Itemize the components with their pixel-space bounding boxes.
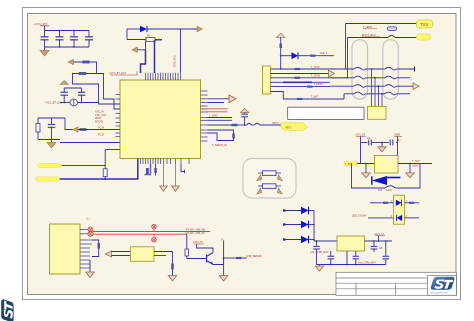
decoupling capacitor C8 on right — [241, 109, 249, 126]
power flag +5V1_U5 — [355, 134, 366, 137]
wire collector up — [197, 245, 214, 253]
legend resistor Ra — [263, 171, 277, 176]
svg-text:PC15: PC15 — [98, 133, 105, 136]
J1 wire pin 4 (thick segment) — [271, 81, 284, 83]
wire right pin to big out arrow — [208, 98, 230, 100]
wire through converter line (left) — [357, 163, 375, 165]
diode D1 — [140, 26, 147, 33]
wire bottom pin to down arrow 1 — [163, 159, 165, 187]
wire stair from bead 2 down to MCU left — [73, 74, 121, 105]
ST logo (bottom-left, rotated) — [1, 299, 13, 321]
ground (crystal) — [47, 140, 56, 149]
svg-text:BOOT_MCU: BOOT_MCU — [362, 34, 376, 37]
capacitor C5 — [61, 88, 69, 103]
svg-text:T_/5V0: T_/5V0 — [412, 160, 420, 163]
svg-text:Vout_STM_MAX: Vout_STM_MAX — [358, 262, 376, 265]
LED A (points right) — [396, 200, 402, 206]
J1 wire pin 1 — [271, 68, 346, 70]
inductor arc on loop — [385, 186, 396, 188]
wire bottom pin with bead — [155, 164, 157, 176]
wire hop near VBTO — [255, 123, 260, 125]
wire through converter line (right) — [398, 163, 432, 165]
wire bottom pin to down arrow 2 — [175, 159, 177, 187]
power flag V5M0 — [394, 134, 402, 137]
ferrite bead FB4 on bottom wire — [146, 168, 149, 174]
legend resistor Rb — [263, 184, 277, 189]
capacitor C6 — [78, 88, 86, 103]
wire with bead going right (VBTO line) — [208, 124, 232, 126]
port arrow left (crystal filter) — [106, 251, 112, 257]
MCU bottom pin stubs — [141, 159, 190, 165]
transformer T1 body left (stadium) — [352, 40, 368, 99]
ferrite bead FB7 (vertical) — [98, 243, 101, 249]
wire rails down to converter — [360, 143, 362, 164]
svg-text:PC14: PC14 — [98, 126, 105, 129]
ground left of converter — [362, 163, 370, 178]
svg-text:life.augmented: life.augmented — [431, 291, 449, 295]
net label BOOT_MCU — [362, 34, 380, 37]
port arrow BT enable — [68, 59, 74, 64]
empty white spare box — [288, 107, 364, 119]
MCU top pin stubs — [146, 73, 181, 80]
ground rail (LDO) — [317, 264, 386, 266]
port arrow right (JTDO) — [329, 70, 335, 77]
power flag +5V1_ST (output) — [374, 233, 385, 242]
inductor L1 (ellipse body) — [70, 99, 78, 106]
MCU right pin stubs — [201, 91, 208, 141]
capacitor C7 (crystal) — [48, 118, 56, 140]
wire top rail of capacitor bank — [45, 30, 90, 32]
junction dot — [104, 178, 106, 180]
svg-text:USB_RENUM: USB_RENUM — [247, 255, 262, 258]
net flag tab 2 (yellow) — [417, 34, 431, 40]
J1 wire pin 2 with arrow — [271, 73, 329, 75]
port arrow down 2 — [172, 186, 179, 191]
port arrow out (right, large) — [229, 95, 236, 103]
svg-text:UMAX: UMAX — [412, 165, 419, 168]
LED B (points left) — [397, 215, 403, 221]
power flag +VCC_BT_LDO (above MCU) — [109, 71, 137, 75]
wire from port arrow down to MCU feed — [138, 41, 146, 50]
thick wire MCU bottom to left yellow flag 2 — [59, 159, 138, 180]
net flag yellow bar 1 — [38, 163, 62, 167]
MCU U1 (main microcontroller) — [120, 80, 201, 159]
title block table — [336, 272, 457, 295]
wire renum out with bead — [224, 257, 236, 259]
wire BOOT to tab 2 with hop — [348, 37, 389, 39]
svg-text:T_JTMS: T_JTMS — [311, 74, 320, 77]
resistor R4 on TVS line — [388, 27, 397, 31]
capacitor C13 — [353, 251, 360, 265]
test point TP1 (crossed circle) — [88, 227, 93, 232]
wire flag1 to resistor node — [62, 164, 106, 166]
svg-text:T_NRST: T_NRST — [314, 83, 324, 86]
test point TP2 (crossed circle) — [88, 231, 93, 236]
wire LED A right with bead — [405, 202, 410, 204]
port arrow out (top) — [197, 26, 203, 32]
wire vertical joining diode and resistor branch — [126, 29, 128, 40]
USB connector CN1 — [50, 224, 81, 274]
wire vertical BOOT feed — [347, 38, 349, 78]
resistor R5 (base) — [185, 249, 189, 256]
wire CN1 lower pins bus to ground — [89, 260, 91, 272]
wire 5V cap rail — [360, 137, 362, 143]
wire T_NRST to TVS tab — [346, 23, 417, 25]
J1 wire pin 6 to T_BAT run — [271, 92, 345, 100]
legend arrows (Ra) — [257, 175, 262, 182]
filter block U3 (yellow) — [131, 247, 155, 261]
MCU left pin stubs — [116, 95, 121, 150]
wire LED A left with bead — [370, 202, 383, 204]
diode D5 (power OR 1) — [283, 207, 314, 215]
capacitor C9 (series plates) — [369, 140, 372, 146]
MCU left pin net labels (red) — [95, 111, 107, 137]
wire LDO cap rail — [64, 87, 81, 89]
power flag +VCC_BT — [34, 22, 50, 26]
row 1 end tick — [414, 67, 416, 72]
power arrow (antenna supply) — [277, 33, 286, 43]
ground below capacitor bank — [40, 47, 49, 56]
wire vertical feed 2 to MCU top — [154, 40, 156, 73]
wire diode to ANL_1 with bead — [298, 55, 310, 57]
transformer pin block (yellow) — [368, 107, 387, 120]
svg-text:VBTO: VBTO — [272, 122, 279, 125]
svg-text:VBTO: VBTO — [285, 127, 292, 130]
wire emitter to node — [213, 258, 224, 265]
wire vertical T_NRST feed — [345, 24, 347, 70]
ferrite bead FB2 — [79, 72, 86, 75]
svg-text:T_JTCK: T_JTCK — [311, 66, 320, 69]
wire crystal bottom rail to ground — [38, 139, 60, 141]
wire MCU bottom loop (violet thick) — [145, 164, 151, 175]
svg-text:DNI 10uH: DNI 10uH — [378, 189, 392, 192]
ground below CN1 — [86, 272, 94, 278]
wire right pin 2 — [208, 102, 225, 104]
ST logo (title block) — [431, 277, 455, 290]
wire loop lower right of MCU — [208, 130, 234, 141]
transformer row 4 wire with coil bumps — [344, 92, 410, 95]
wire base to transistor — [187, 258, 207, 260]
svg-text:1uF: 1uF — [379, 247, 384, 250]
test point TP3 — [152, 224, 157, 231]
port arrow in (left) — [132, 47, 138, 53]
wire LDO output — [365, 240, 393, 242]
capacitor C12 — [328, 251, 335, 265]
capacitor C3 — [70, 37, 78, 40]
power flag +5V1_ST (transistor circuit) — [193, 241, 204, 244]
wire stair 2 to MCU left — [97, 74, 121, 110]
resistor R3 (pull) — [103, 169, 107, 177]
wire CN1 shield loop — [92, 240, 99, 243]
svg-text:10u: 10u — [397, 139, 402, 142]
wire pair out of filter block — [154, 251, 173, 253]
wire bead to diode junction — [280, 48, 282, 56]
ferrite bead FB5 (vertical, on loop) — [232, 134, 235, 139]
ground right of converter — [406, 163, 414, 178]
capacitor C1 — [41, 37, 49, 40]
svg-text:T_BAT: T_BAT — [311, 96, 319, 99]
svg-text:ANL_1: ANL_1 — [320, 52, 328, 55]
port arrow down 1 — [160, 186, 167, 191]
wire crystal to MCU OSC pins — [65, 118, 73, 130]
ferrite bead FB8 (vertical) below — [171, 252, 174, 276]
wire bottom rail of capacitor bank — [45, 46, 90, 48]
ground below bead — [168, 276, 176, 282]
transformer T1 body right (stadium) — [383, 40, 399, 99]
wire top diode branch — [127, 28, 140, 30]
transistor Q1 (NPN) — [207, 253, 214, 265]
pin number labels on LED package — [391, 200, 408, 218]
wire pair into filter block — [112, 251, 131, 253]
resistor R1 — [146, 38, 155, 42]
wire crystal top rail — [38, 117, 65, 119]
wire from red bus down to resistor — [186, 234, 188, 249]
MCU top pin numbers row — [145, 78, 182, 80]
transformer row 3 wire with coil bumps — [330, 85, 413, 88]
port arrow right (transformer out) — [413, 83, 419, 90]
wire junction down to connector pin 1 — [280, 56, 282, 69]
wire to port arrow from top pin — [180, 29, 182, 73]
wire lower rails to MCU — [60, 142, 120, 144]
J1 wire pin 5 — [271, 86, 331, 88]
wire vertical renum node — [223, 241, 225, 259]
red wire USB DM — [203, 108, 228, 110]
legend arrows (Rb) — [257, 188, 262, 195]
svg-text:+VCC_BT: +VCC_BT — [34, 22, 48, 26]
ferrite bead FB3 on OSC wire — [80, 128, 87, 131]
converter module U2 (yellow) — [375, 156, 399, 174]
transformer row 2 wire with coil bumps — [330, 76, 410, 79]
ground (renum) — [219, 276, 227, 282]
wire T_BAT rise to row 4 — [343, 94, 345, 99]
wire power flag to rail — [44, 26, 46, 31]
svg-text:+VCC_BT_LDO: +VCC_BT_LDO — [45, 102, 62, 105]
capacitor C10 (series plates) — [390, 140, 393, 146]
feedback loop wire below converter — [352, 164, 386, 189]
svg-text:10u: 10u — [367, 137, 372, 140]
wire hop and continue toward VBTO — [247, 123, 251, 125]
CN1 right pin stubs — [80, 230, 92, 269]
wire LDO bottom rail — [60, 102, 70, 104]
svg-text:T_SWDIO_IN: T_SWDIO_IN — [212, 144, 227, 147]
wire LDO bottom pin — [346, 251, 348, 265]
wire into VBTO flag — [260, 124, 282, 126]
ground (5V rail center) — [378, 142, 386, 152]
big diode D3 (bold, pointing left) — [372, 176, 401, 185]
capacitor C14 (output) — [371, 240, 378, 252]
test point TP4 — [152, 234, 157, 242]
net flag TVS (yellow tab) — [417, 20, 433, 28]
svg-text:BOOT0: BOOT0 — [95, 120, 104, 123]
connector J1 (debug) — [263, 66, 271, 94]
wire with ferrite bead from port — [74, 62, 97, 74]
crystal circuit: resistor R2 (left) — [36, 118, 40, 140]
capacitor C15 — [383, 240, 390, 264]
net flag VBTO (yellow pennant) — [281, 123, 308, 131]
svg-text:LED_STLINK: LED_STLINK — [352, 215, 367, 218]
svg-text:TVS: TVS — [420, 22, 428, 27]
legend rounded box — [243, 159, 296, 199]
ground symbol (LDO rail) — [315, 265, 323, 272]
wire bottom pin with end tick — [181, 164, 185, 172]
svg-text:+VCC_BT_LDO: +VCC_BT_LDO — [109, 72, 126, 75]
LED package D4 (dual LED) — [394, 195, 405, 224]
net flag yellow bar 2 — [36, 177, 60, 181]
svg-text:STLINK_USB_DP: STLINK_USB_DP — [186, 232, 206, 235]
diode D7 (power OR 3) — [283, 236, 314, 244]
red wire USB_DP run — [93, 233, 187, 235]
J1 wire pin 3 — [271, 77, 348, 79]
transformer row 1 wire with coil bumps — [330, 67, 415, 70]
transformer center taps to pin block — [372, 69, 383, 107]
diode D6 (power OR 2) — [283, 221, 314, 229]
ferrite bead FB1 — [83, 61, 90, 64]
wire LED B left — [368, 217, 394, 219]
red wire USB DP — [203, 111, 228, 113]
svg-text:1uF_VCPB_MAX: 1uF_VCPB_MAX — [310, 251, 329, 254]
net flag T_5V0 (small yellow) — [344, 161, 357, 166]
ferrite bead FB6 (vertical) — [280, 44, 283, 49]
junction dots LDO rail — [63, 102, 82, 104]
sheet inner border frame — [28, 14, 457, 295]
junction dots on capacitor rails — [59, 30, 75, 48]
svg-text:T_NRST: T_NRST — [363, 26, 373, 29]
wire resistor branch — [127, 39, 146, 41]
wire bead to MCU — [78, 129, 116, 131]
wire LED B right — [405, 217, 420, 219]
net label T_NRST (top) — [363, 26, 377, 29]
LDO regulator U5 (yellow) — [337, 236, 365, 251]
capacitor C11 (LDO in) — [313, 240, 320, 264]
wire vertical from resistor node up to MCU — [104, 150, 106, 166]
capacitor C4 — [85, 37, 93, 40]
power arrow +VCC LDO rail — [60, 81, 69, 89]
svg-text:VDD_MCU: VDD_MCU — [174, 55, 177, 67]
red wire USB_DM run — [93, 231, 210, 233]
wire right pin row 3 — [208, 117, 233, 119]
diode D2 (antenna) — [281, 52, 298, 59]
capacitor C2 — [56, 37, 64, 40]
wire thick vertical feed to MCU top — [141, 50, 146, 73]
wire diode OR bus — [313, 211, 315, 242]
port arrow OSC — [73, 127, 78, 132]
wire bus to LDO input — [314, 240, 337, 242]
